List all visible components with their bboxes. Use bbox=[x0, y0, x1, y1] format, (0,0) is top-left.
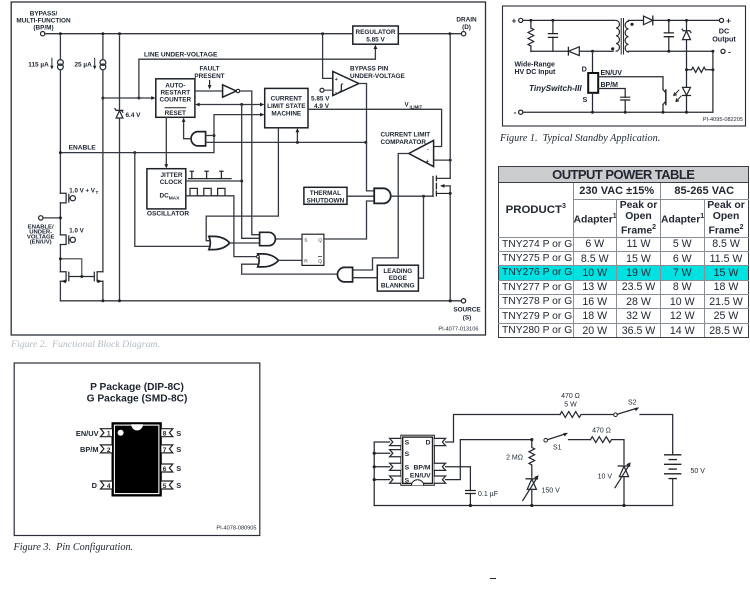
wire test circuit bottom rail bbox=[374, 504, 673, 507]
label VLIMIT bbox=[405, 101, 423, 109]
capacitor C-clamp bbox=[548, 20, 557, 51]
svg-text:CLOCK: CLOCK bbox=[160, 179, 183, 186]
node mirror junctions bbox=[59, 257, 83, 278]
bypass pin under-voltage comparator U-BPUV bbox=[311, 34, 406, 110]
svg-text:470 Ω: 470 Ω bbox=[592, 428, 611, 435]
svg-text:BLANKING: BLANKING bbox=[381, 282, 415, 289]
svg-text:AUTO-: AUTO- bbox=[165, 83, 185, 90]
waveform jitter clock ticks bbox=[189, 171, 232, 178]
and gate U-LEBA (points left) bbox=[337, 267, 377, 282]
svg-text:S2: S2 bbox=[628, 400, 637, 407]
svg-text:115 µA: 115 µA bbox=[28, 61, 49, 68]
svg-text:LIMIT STATE: LIMIT STATE bbox=[267, 103, 306, 110]
figure 3 border frame bbox=[14, 363, 260, 536]
svg-text:CURRENT: CURRENT bbox=[271, 96, 302, 103]
pin 2 BP/M bbox=[80, 445, 112, 454]
svg-text:-: - bbox=[514, 107, 517, 117]
svg-text:S: S bbox=[304, 237, 307, 243]
regulator box U-REG bbox=[353, 26, 399, 44]
wire DCmax output to OR-B bbox=[186, 196, 256, 257]
node BP/M rail junctions bbox=[59, 32, 452, 35]
svg-text:HV DC Input: HV DC Input bbox=[515, 69, 556, 76]
svg-text:S: S bbox=[176, 445, 181, 454]
pin 5 S bbox=[161, 481, 181, 490]
svg-text:(BP/M): (BP/M) bbox=[33, 25, 53, 32]
label PI-4077-013106 bbox=[438, 327, 478, 333]
wire OR-B output to latch R bbox=[279, 259, 303, 261]
input + terminal bbox=[512, 16, 523, 26]
pin S2a bbox=[390, 450, 401, 457]
svg-text:S1: S1 bbox=[553, 445, 562, 452]
svg-text:S: S bbox=[176, 481, 181, 490]
wire line under-voltage bbox=[103, 45, 377, 100]
svg-text:FAULT: FAULT bbox=[199, 66, 219, 73]
svg-text:CURRENT LIMIT: CURRENT LIMIT bbox=[381, 131, 431, 138]
pin 4 D bbox=[92, 481, 112, 490]
caption figure 3 bbox=[14, 542, 134, 553]
svg-text:5: 5 bbox=[163, 483, 167, 490]
zener VR 10V variable bbox=[598, 462, 631, 505]
svg-text:S: S bbox=[176, 464, 181, 473]
resistor R 470ohm bbox=[591, 428, 625, 465]
diode LED opto bbox=[683, 70, 691, 112]
pin S3a bbox=[390, 463, 401, 470]
IC package body DIP-8 bbox=[112, 423, 161, 496]
svg-text:S: S bbox=[405, 477, 410, 484]
svg-text:2 MΩ: 2 MΩ bbox=[506, 455, 523, 462]
svg-text:5.85 V: 5.85 V bbox=[366, 37, 385, 44]
svg-text:6: 6 bbox=[163, 466, 167, 473]
svg-text:REGULATOR: REGULATOR bbox=[356, 29, 396, 36]
svg-text:T: T bbox=[96, 190, 99, 195]
svg-text:SHUTDOWN: SHUTDOWN bbox=[307, 197, 345, 204]
svg-text:RESET: RESET bbox=[165, 110, 186, 117]
diode D-out bbox=[644, 16, 653, 25]
svg-text:BYPASS PIN: BYPASS PIN bbox=[350, 66, 389, 73]
svg-text:RESTART: RESTART bbox=[160, 90, 190, 97]
wire comparator plus input to drain line bbox=[434, 159, 452, 162]
svg-text:-: - bbox=[335, 89, 337, 95]
svg-text:COMPARATOR: COMPARATOR bbox=[381, 139, 427, 146]
svg-text:THERMAL: THERMAL bbox=[310, 190, 341, 197]
wire source rail bbox=[60, 300, 461, 302]
auto-restart counter box U-ARC bbox=[156, 79, 195, 118]
output - terminal bbox=[721, 46, 731, 56]
waveform DCmax square wave bbox=[190, 188, 225, 195]
input - terminal bbox=[514, 107, 523, 117]
wire ARC to oscillator arrow bbox=[164, 117, 168, 168]
svg-text:EDGE: EDGE bbox=[389, 275, 408, 282]
BP/M pin terminal bbox=[16, 11, 71, 36]
caption figure 2 (faded) bbox=[11, 339, 160, 350]
and gate U-RST (points left) bbox=[191, 132, 214, 146]
svg-text:-: - bbox=[728, 46, 731, 56]
svg-text:BP/M: BP/M bbox=[601, 82, 619, 89]
pin ENUV-test bbox=[434, 476, 445, 483]
svg-text:50 V: 50 V bbox=[691, 468, 706, 475]
wire bypass-out long horizontal bbox=[214, 128, 367, 144]
wire latch Q to gate AND bbox=[324, 201, 374, 239]
svg-text:2: 2 bbox=[107, 447, 111, 454]
node enable rail junctions bbox=[59, 134, 216, 154]
pin D-test bbox=[434, 438, 445, 445]
svg-text:25 µA: 25 µA bbox=[75, 61, 93, 68]
current source I2 25uA bbox=[75, 58, 106, 70]
pin S1a bbox=[390, 438, 401, 445]
svg-text:EN/UV: EN/UV bbox=[76, 429, 99, 438]
svg-text:S: S bbox=[405, 465, 410, 472]
wire ARC-CLSM double arrow bbox=[195, 103, 264, 107]
svg-text:(D): (D) bbox=[462, 24, 471, 31]
svg-text:1: 1 bbox=[107, 431, 111, 438]
svg-text:BP/M: BP/M bbox=[414, 465, 431, 472]
output power table bbox=[498, 166, 749, 338]
and gate U-GDRV bbox=[374, 188, 391, 203]
wire BP/M top rail bbox=[45, 33, 462, 35]
svg-text:1.0 V: 1.0 V bbox=[69, 227, 84, 234]
svg-text:LINE UNDER-VOLTAGE: LINE UNDER-VOLTAGE bbox=[144, 52, 218, 59]
output + terminal bbox=[712, 16, 736, 44]
svg-text:+: + bbox=[726, 16, 731, 26]
pin S4a bbox=[390, 476, 401, 483]
svg-text:ENABLE: ENABLE bbox=[69, 145, 97, 152]
capacitor C-out bbox=[664, 20, 673, 51]
wire thermal to gate AND bbox=[347, 195, 374, 197]
transistor Q-PWR output MOSFET bbox=[433, 176, 450, 196]
svg-text:DC: DC bbox=[159, 193, 169, 200]
label package titles bbox=[87, 382, 188, 405]
pin 1 EN/UV bbox=[76, 429, 112, 438]
inverter U-INV bbox=[195, 85, 240, 97]
svg-text:-: - bbox=[427, 147, 429, 153]
wire 115uA branch down to enable rail and EN/UV stack bbox=[59, 36, 61, 301]
capacitor C 0.1uF bbox=[466, 491, 498, 499]
svg-text:MACHINE: MACHINE bbox=[271, 111, 302, 118]
wire clock output bbox=[186, 180, 242, 182]
EN/UV pin terminal bbox=[27, 216, 61, 246]
wire EN/UV up to S1 branch bbox=[446, 438, 534, 480]
svg-text:5 W: 5 W bbox=[564, 402, 577, 409]
capacitor C-bpm bbox=[621, 97, 630, 100]
svg-text:D: D bbox=[582, 64, 587, 73]
wire 25uA branch down bbox=[102, 36, 104, 301]
svg-text:Output: Output bbox=[712, 35, 736, 44]
svg-text:7: 7 bbox=[163, 447, 167, 454]
svg-text:PI-4077-013106: PI-4077-013106 bbox=[438, 327, 478, 333]
wire fig1 bottom rail bbox=[523, 111, 713, 114]
svg-text:EN/UV: EN/UV bbox=[410, 473, 431, 480]
svg-text:D: D bbox=[92, 481, 98, 490]
wire fig1 secondary top bbox=[628, 19, 719, 22]
wire fig1 top rail bbox=[523, 19, 615, 22]
svg-text:LEADING: LEADING bbox=[383, 268, 412, 275]
wire gate drive to MOSFET bbox=[391, 195, 433, 198]
zener VR-out bbox=[682, 20, 691, 69]
svg-text:BP/M: BP/M bbox=[80, 445, 98, 454]
svg-text:JITTER: JITTER bbox=[160, 172, 182, 179]
wire bypass comparator output down bbox=[359, 84, 374, 191]
svg-text:EN/UV: EN/UV bbox=[601, 70, 623, 77]
svg-text:470 Ω: 470 Ω bbox=[561, 393, 580, 400]
current limit comparator U-CLC (points left) bbox=[381, 131, 434, 166]
svg-text:10 V: 10 V bbox=[598, 474, 613, 481]
svg-text:Q: Q bbox=[318, 237, 322, 243]
svg-text:S: S bbox=[405, 440, 410, 447]
pin 8 S bbox=[161, 429, 181, 438]
svg-text:MAX: MAX bbox=[169, 195, 180, 201]
wire inverter output to latch AND bbox=[240, 91, 260, 235]
switch S2 bbox=[614, 400, 673, 453]
pin 6 S bbox=[161, 464, 181, 473]
resistor R-fb bbox=[685, 51, 714, 112]
wire comparator output to LEB AND bbox=[353, 154, 409, 271]
transistor M2 1.0V bbox=[60, 227, 84, 244]
wire ARC reset input from AND-R bbox=[182, 118, 190, 139]
wire VLIMIT from CLSM to comparator bbox=[308, 109, 442, 146]
svg-text:SOURCE: SOURCE bbox=[453, 307, 481, 314]
transistor M1 1.0V+VT bbox=[60, 187, 98, 203]
wire fig1 secondary bottom rail bbox=[628, 50, 714, 53]
leading edge blanking box U-LEB bbox=[377, 265, 418, 291]
svg-text:(EN/UV): (EN/UV) bbox=[30, 240, 52, 246]
wire fault/clock vertical to latch AND bbox=[240, 105, 259, 239]
current source I1 115uA bbox=[28, 58, 63, 70]
DRAIN pin terminal bbox=[456, 17, 477, 36]
latch U-SR bbox=[302, 234, 324, 265]
wire BP/M to cap bbox=[598, 82, 625, 112]
optocoupler Q-opto bbox=[663, 90, 681, 113]
node EN/UV junction bbox=[59, 216, 62, 219]
svg-text:S: S bbox=[583, 95, 588, 104]
svg-text:Q: Q bbox=[318, 259, 322, 265]
node LINE-UV tap on 25uA line bbox=[101, 97, 140, 100]
svg-text:+: + bbox=[426, 159, 429, 165]
wire BP/M to cap 0.1uF bbox=[446, 467, 471, 506]
figure 1 border frame bbox=[503, 6, 746, 126]
resistor R 2Mohm bbox=[506, 440, 535, 477]
svg-text:5.85 V: 5.85 V bbox=[311, 95, 330, 102]
svg-text:S: S bbox=[176, 429, 181, 438]
wire OR-B lower input loop bbox=[242, 264, 337, 274]
wire EN/UV to opto bbox=[598, 70, 663, 90]
svg-text:G Package (SMD-8C): G Package (SMD-8C) bbox=[87, 394, 188, 405]
ENABLE rail bbox=[60, 113, 264, 153]
thermal shutdown box U-TSD bbox=[304, 187, 347, 204]
svg-text:4: 4 bbox=[107, 483, 111, 490]
svg-text:UNDER-VOLTAGE: UNDER-VOLTAGE bbox=[350, 73, 406, 80]
current limit state machine box U-CLSM bbox=[265, 88, 308, 127]
svg-text:0.1 µF: 0.1 µF bbox=[478, 491, 498, 498]
svg-text:6.4 V: 6.4 V bbox=[126, 112, 142, 119]
svg-text:TinySwitch-III: TinySwitch-III bbox=[529, 84, 582, 93]
switch S1 bbox=[544, 433, 591, 452]
zener VR 150V variable bbox=[523, 475, 560, 505]
svg-text:PI-4095-082205: PI-4095-082205 bbox=[703, 117, 743, 123]
label PI-4095-082205 bbox=[703, 117, 743, 123]
svg-text:MULTI-FUNCTION: MULTI-FUNCTION bbox=[16, 18, 71, 25]
caption figure 1 bbox=[500, 133, 660, 144]
svg-text:+: + bbox=[512, 16, 517, 26]
and gate U-ANDL (latch set) bbox=[260, 232, 276, 245]
svg-text:D: D bbox=[426, 440, 431, 447]
footer page dash bbox=[490, 578, 496, 580]
svg-text:PI-4078-080905: PI-4078-080905 bbox=[216, 526, 256, 532]
transformer T1 bbox=[611, 19, 634, 55]
figure 2 border frame bbox=[11, 2, 485, 335]
wire AND-L output to latch S bbox=[277, 238, 302, 240]
SOURCE pin terminal bbox=[453, 299, 481, 322]
svg-text:PRESENT: PRESENT bbox=[194, 73, 224, 80]
svg-text:(S): (S) bbox=[463, 315, 472, 322]
label FAULT PRESENT bbox=[194, 66, 224, 90]
diode D-clamp bbox=[531, 47, 613, 56]
svg-text:8: 8 bbox=[163, 431, 167, 438]
svg-text:COUNTER: COUNTER bbox=[159, 97, 191, 104]
node source rail junctions bbox=[101, 299, 451, 302]
wire enable to OR-A input bbox=[135, 153, 209, 247]
wire S pin bus bbox=[373, 442, 390, 506]
IC U1 TinySwitch-III bbox=[515, 53, 599, 112]
battery BT 50V bbox=[665, 452, 706, 505]
wire CLSM bottom output to OR-A bbox=[206, 128, 278, 241]
wire OR-A output to latch AND bbox=[230, 242, 260, 244]
pin 7 S bbox=[161, 445, 181, 454]
pin BPM-test bbox=[434, 463, 445, 470]
svg-text:150 V: 150 V bbox=[542, 488, 561, 495]
svg-text:OSCILLATOR: OSCILLATOR bbox=[147, 211, 189, 218]
svg-text:+: + bbox=[335, 77, 338, 83]
wire D pin up to S2 branch bbox=[446, 415, 560, 443]
or gate U-ORB (with bubble) bbox=[257, 254, 279, 267]
svg-text:1.0 V + V: 1.0 V + V bbox=[69, 187, 95, 194]
svg-text:DRAIN: DRAIN bbox=[456, 17, 477, 24]
resistor R 470ohm 5W bbox=[560, 393, 614, 417]
svg-text:BYPASS/: BYPASS/ bbox=[30, 11, 58, 18]
oscillator box U-OSC bbox=[147, 169, 189, 218]
label PI-4078-080905 bbox=[216, 526, 256, 532]
svg-text:S: S bbox=[405, 451, 410, 458]
IC U2 DIP-8 body bbox=[401, 435, 435, 485]
wire drain vertical bbox=[449, 34, 452, 301]
or gate U-ORA bbox=[209, 236, 230, 249]
svg-text:R: R bbox=[304, 259, 308, 265]
zener VZ 6.4V bbox=[115, 36, 141, 301]
svg-text:P Package (DIP-8C): P Package (DIP-8C) bbox=[90, 382, 184, 393]
transistor pair current mirror bbox=[60, 259, 103, 283]
svg-text:Wide-Range: Wide-Range bbox=[515, 62, 555, 69]
wire drain sense to LEB bbox=[418, 196, 423, 278]
resistor R-clamp bbox=[528, 20, 534, 51]
